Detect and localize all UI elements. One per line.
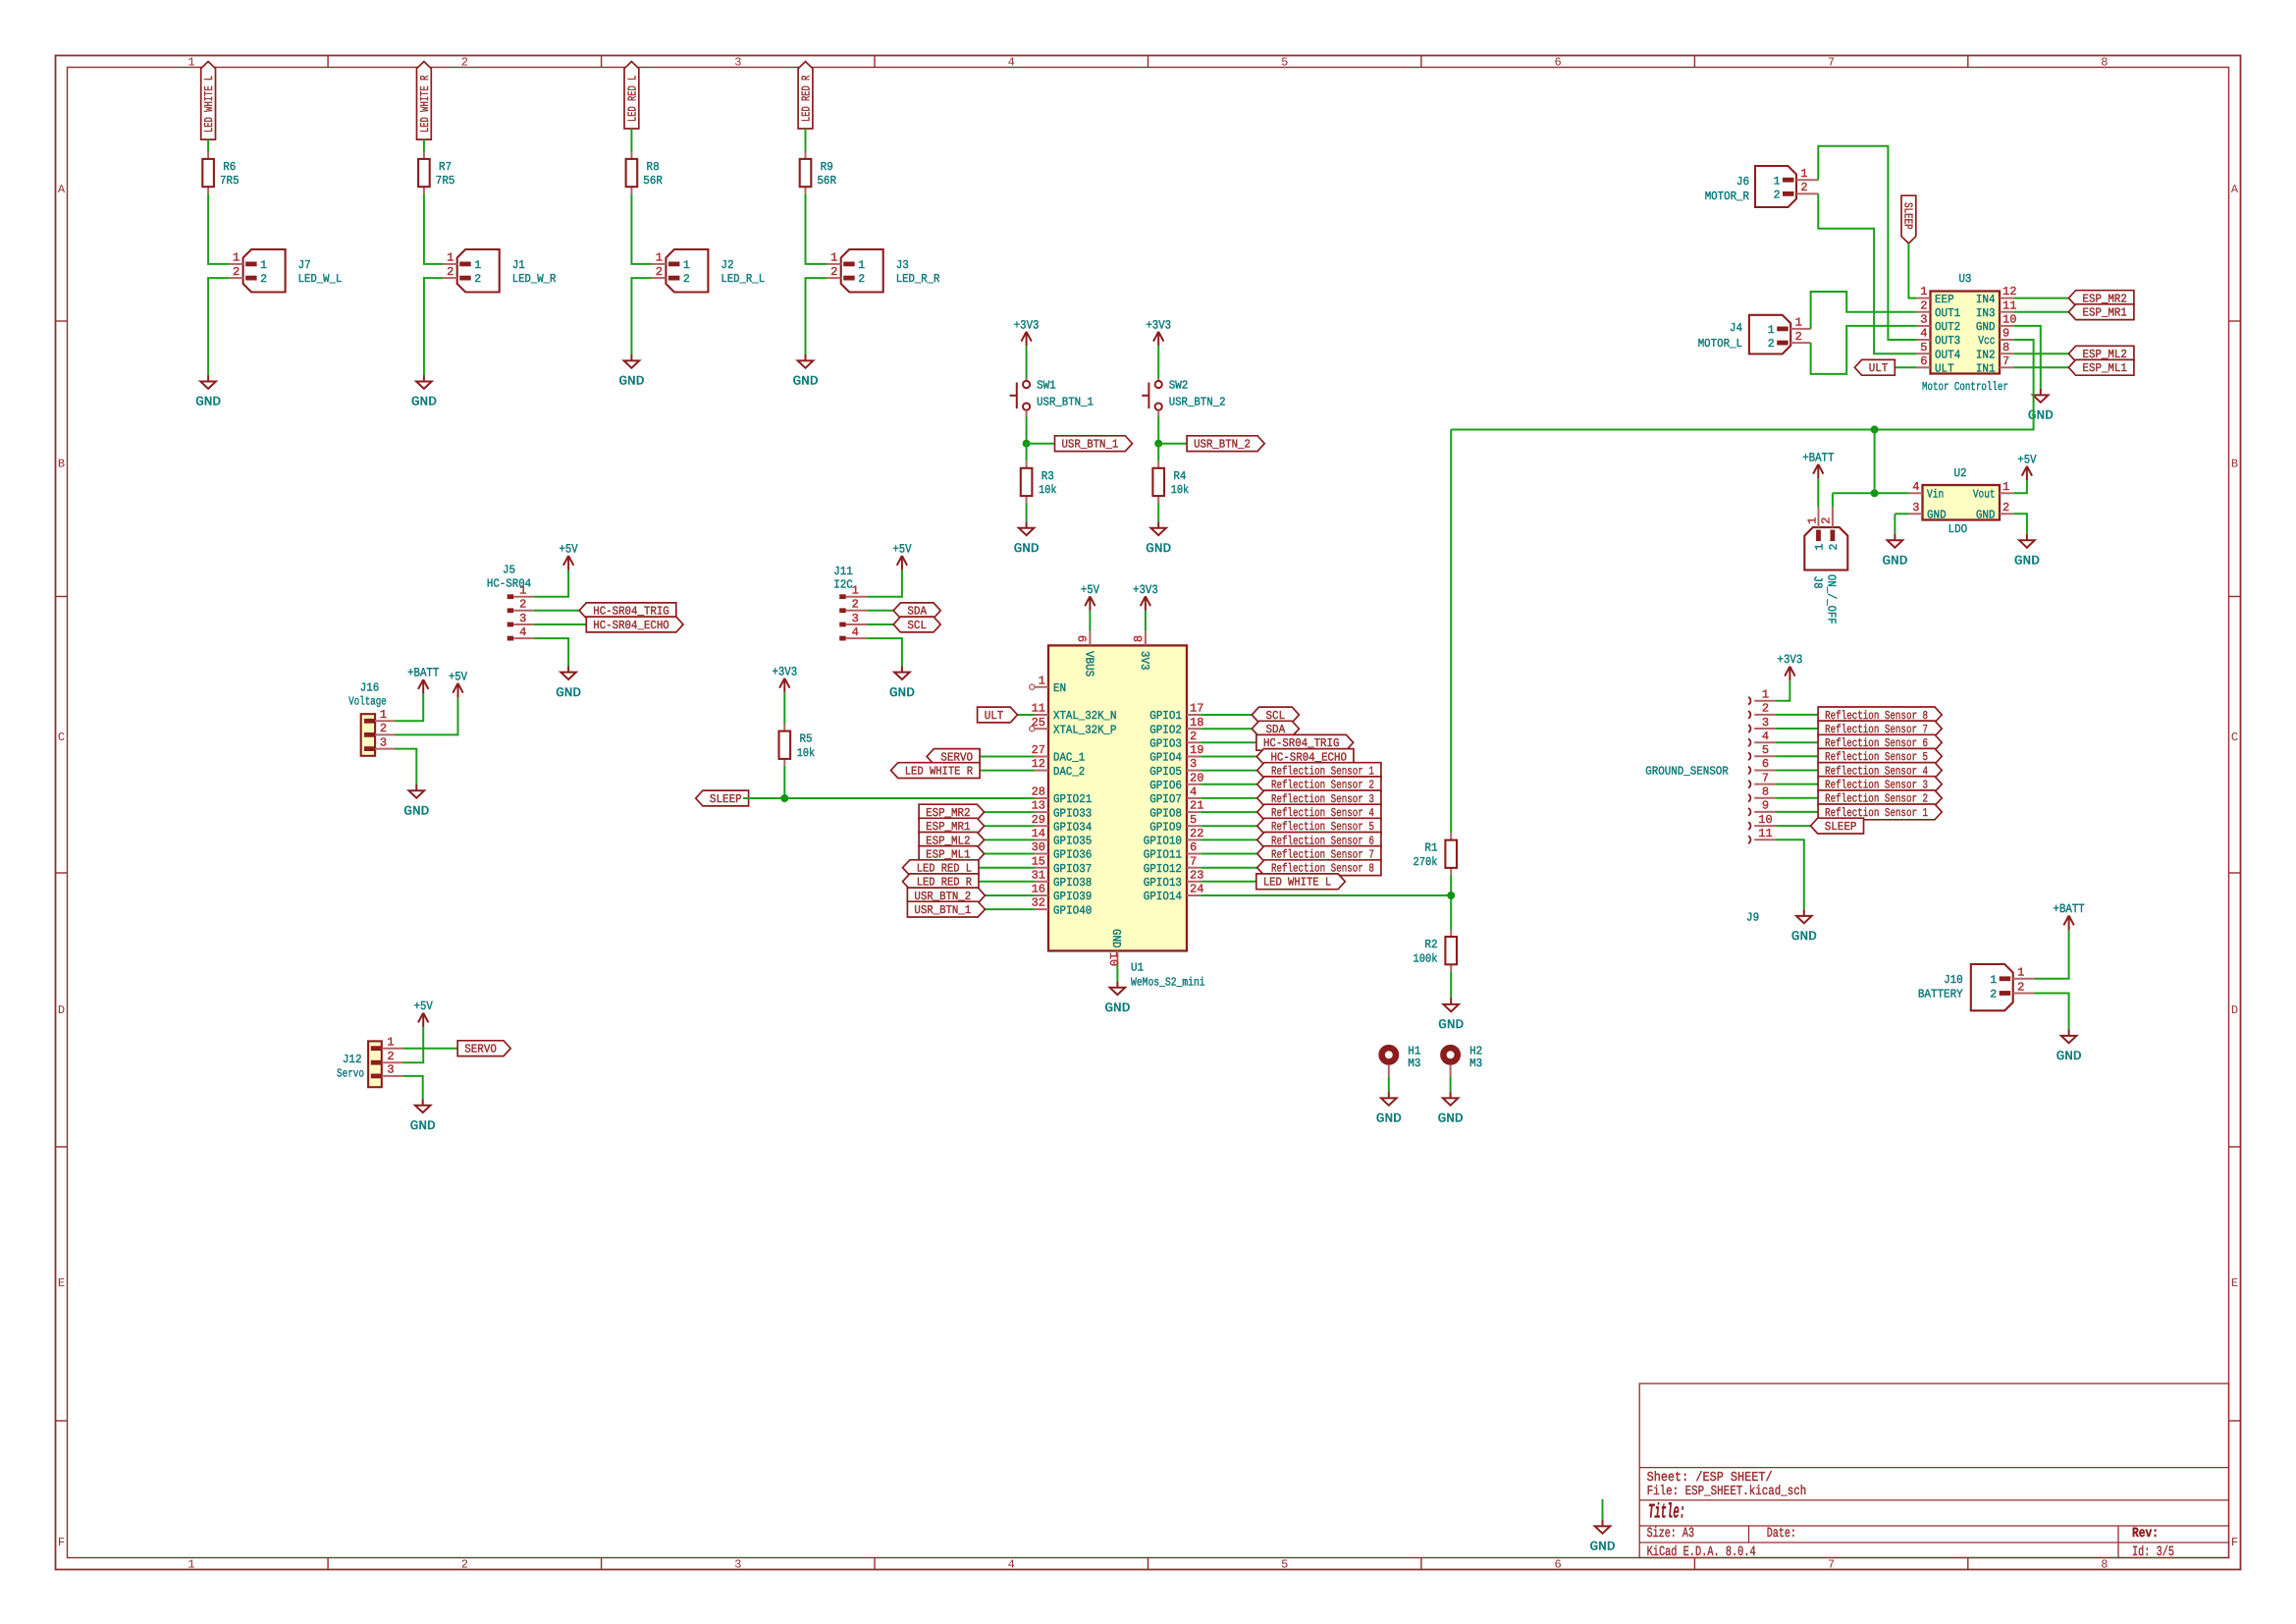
svg-text:GPIO1: GPIO1 xyxy=(1149,709,1182,723)
power +3V3 xyxy=(1785,667,1794,681)
wire ESP_ML1 to U1 xyxy=(978,853,1035,855)
U1 pin 3 GPIO5 xyxy=(1187,770,1201,772)
resistor R8 xyxy=(626,152,638,193)
svg-text:SW2: SW2 xyxy=(1169,379,1189,393)
label Reflection Sensor 6 xyxy=(1818,734,1942,750)
svg-text:GND: GND xyxy=(2056,1049,2082,1063)
connector J16 xyxy=(361,714,396,756)
svg-text:GPIO7: GPIO7 xyxy=(1149,792,1182,806)
label Reflection Sensor 3 xyxy=(1257,790,1381,806)
svg-text:J12: J12 xyxy=(343,1053,362,1066)
wire GPIO1 to SCL xyxy=(1201,714,1252,716)
svg-text:2: 2 xyxy=(656,265,663,279)
ground xyxy=(798,354,814,368)
svg-text:10: 10 xyxy=(1106,952,1120,966)
ground xyxy=(894,666,910,679)
svg-text:OUT4: OUT4 xyxy=(1935,348,1960,361)
label Reflection Sensor 5 xyxy=(1818,748,1942,764)
svg-text:10k: 10k xyxy=(1039,483,1056,497)
label LED RED L xyxy=(903,860,980,876)
svg-text:4: 4 xyxy=(1008,56,1015,70)
wire xyxy=(534,638,568,666)
svg-text:LED RED R: LED RED R xyxy=(799,76,813,122)
svg-text:7: 7 xyxy=(1762,771,1769,785)
label SLEEP xyxy=(1901,195,1916,244)
U1 pin 16 GPIO39 xyxy=(1035,894,1048,896)
svg-text:VBUS: VBUS xyxy=(1083,651,1096,677)
U1 pin 8 3V3 xyxy=(1145,631,1147,645)
svg-text:MOTOR_L: MOTOR_L xyxy=(1698,337,1742,351)
svg-text:GND: GND xyxy=(403,804,429,819)
label LED RED L xyxy=(624,62,639,129)
svg-text:1: 1 xyxy=(2002,480,2009,494)
U2 pin 1 Vout xyxy=(2000,492,2013,494)
svg-text:GPIO37: GPIO37 xyxy=(1053,862,1092,876)
svg-text:GND: GND xyxy=(2014,554,2040,568)
svg-text:12: 12 xyxy=(2002,285,2016,298)
svg-text:GPIO5: GPIO5 xyxy=(1149,765,1182,779)
label ESP_MR2 xyxy=(919,804,985,820)
wire xyxy=(1157,417,1159,444)
svg-text:+5V: +5V xyxy=(414,1000,434,1013)
svg-text:XTAL_32K_N: XTAL_32K_N xyxy=(1053,709,1116,723)
svg-text:2: 2 xyxy=(1795,330,1802,344)
svg-text:3: 3 xyxy=(1762,716,1769,730)
svg-text:3: 3 xyxy=(1912,501,1919,514)
label Reflection Sensor 3 xyxy=(1818,777,1942,792)
svg-text:M3: M3 xyxy=(1469,1056,1482,1070)
U3 pin 1 EEP xyxy=(1916,298,1930,299)
switch SW1 xyxy=(1010,379,1031,417)
svg-text:1: 1 xyxy=(1768,324,1775,337)
power +3V3 xyxy=(1153,332,1163,347)
svg-text:11: 11 xyxy=(1032,702,1045,716)
connector J6 xyxy=(1755,166,1818,207)
wire J8/Vin rail xyxy=(1833,492,1909,494)
label Reflection Sensor 2 xyxy=(1818,790,1942,806)
svg-text:5: 5 xyxy=(1762,743,1769,757)
wire xyxy=(867,623,893,625)
wire xyxy=(1026,503,1028,521)
wire USR_BTN_2 to U1 xyxy=(978,894,1035,896)
svg-text:19: 19 xyxy=(1190,743,1203,757)
ground xyxy=(1443,1092,1459,1106)
resistor R4 xyxy=(1152,461,1164,503)
svg-text:LED RED L: LED RED L xyxy=(625,76,639,122)
U1 pin 20 GPIO6 xyxy=(1187,784,1201,785)
svg-text:3: 3 xyxy=(734,1558,741,1572)
wire J9 pin7 to Reflection Sensor 3 xyxy=(1776,784,1818,785)
svg-text:LED WHITE R: LED WHITE R xyxy=(418,76,432,133)
wire xyxy=(1026,417,1028,444)
label Reflection Sensor 1 xyxy=(1257,763,1381,779)
svg-text:R3: R3 xyxy=(1041,469,1054,483)
label LED WHITE L xyxy=(201,62,216,140)
svg-text:File: ESP_SHEET.kicad_sch: File: ESP_SHEET.kicad_sch xyxy=(1647,1485,1807,1499)
svg-text:OUT2: OUT2 xyxy=(1935,320,1960,334)
wire +5V to J12 pin2 xyxy=(403,1027,424,1062)
svg-text:21: 21 xyxy=(1190,799,1203,813)
svg-text:+3V3: +3V3 xyxy=(1133,583,1158,597)
ground xyxy=(1381,1092,1397,1106)
svg-text:LDO: LDO xyxy=(1949,522,1968,536)
wire GPIO3 to HC-SR04_TRIG xyxy=(1201,741,1256,743)
wire xyxy=(1157,346,1159,378)
wire U3 IN3 to ESP_MR1 xyxy=(2013,311,2068,313)
svg-text:2: 2 xyxy=(683,273,690,286)
svg-text:GND: GND xyxy=(889,685,915,700)
power +3V3 xyxy=(1141,596,1150,611)
wire xyxy=(867,570,902,597)
svg-text:R8: R8 xyxy=(647,160,660,174)
svg-text:GND: GND xyxy=(1109,929,1123,948)
label ESP_MR1 xyxy=(919,818,985,834)
svg-text:7R5: 7R5 xyxy=(436,174,455,188)
svg-text:5: 5 xyxy=(1281,56,1288,70)
U1 pin 23 GPIO13 xyxy=(1187,881,1201,883)
label Reflection Sensor 4 xyxy=(1257,804,1381,820)
svg-text:29: 29 xyxy=(1032,813,1045,827)
U1 pin 15 GPIO37 xyxy=(1035,867,1048,869)
svg-text:270k: 270k xyxy=(1414,855,1438,869)
wire J9 pin2 to Reflection Sensor 8 xyxy=(1776,714,1818,716)
wire GPIO14 to R1/R2 node xyxy=(1201,894,1451,896)
connector J3 xyxy=(828,249,883,293)
svg-text:SCL: SCL xyxy=(907,619,927,632)
power +5V xyxy=(2022,466,2032,481)
svg-text:GPIO12: GPIO12 xyxy=(1144,862,1182,876)
resistor R2 xyxy=(1445,930,1457,971)
connector J4 xyxy=(1749,315,1811,354)
svg-text:USR_BTN_1: USR_BTN_1 xyxy=(914,903,971,917)
U1 pin 7 GPIO12 xyxy=(1187,867,1201,869)
svg-text:2: 2 xyxy=(1820,517,1834,524)
IC U1 WeMos_S2_mini body xyxy=(1048,645,1187,950)
svg-text:IN2: IN2 xyxy=(1976,348,1996,361)
wire xyxy=(1026,346,1028,378)
label Reflection Sensor 4 xyxy=(1818,763,1942,779)
wire R1 to R2 xyxy=(1450,875,1452,930)
svg-text:1: 1 xyxy=(858,259,865,272)
label LED WHITE R xyxy=(417,62,432,140)
svg-text:GPIO14: GPIO14 xyxy=(1144,890,1182,903)
wire GPIO8 to Reflection Sensor 4 xyxy=(1201,811,1257,813)
label ESP_MR1 xyxy=(2068,304,2134,320)
svg-text:HC-SR04: HC-SR04 xyxy=(487,577,531,591)
svg-text:E: E xyxy=(2231,1276,2238,1290)
wire xyxy=(208,193,229,264)
ground xyxy=(416,375,432,389)
U3 pin 8 IN2 xyxy=(2000,352,2013,354)
svg-text:J2: J2 xyxy=(721,258,733,272)
label Reflection Sensor 1 xyxy=(1818,804,1942,820)
wire xyxy=(208,278,229,375)
svg-text:C: C xyxy=(58,731,65,744)
U3 pin 7 IN1 xyxy=(2000,366,2013,368)
svg-text:I2C: I2C xyxy=(833,577,853,591)
svg-text:+5V: +5V xyxy=(2017,453,2037,466)
label USR_BTN_1 xyxy=(1055,436,1133,452)
svg-text:8: 8 xyxy=(2002,341,2009,354)
svg-text:6: 6 xyxy=(1554,1558,1561,1572)
svg-text:+5V: +5V xyxy=(449,670,468,683)
label ULT xyxy=(1854,359,1895,375)
svg-text:U1: U1 xyxy=(1131,960,1144,974)
wire J9 pin8 to Reflection Sensor 2 xyxy=(1776,797,1818,799)
svg-text:25: 25 xyxy=(1032,716,1045,730)
svg-text:+BATT: +BATT xyxy=(407,667,440,680)
wire J9 pin3 to Reflection Sensor 7 xyxy=(1776,728,1818,730)
svg-text:GPIO10: GPIO10 xyxy=(1144,835,1182,848)
wire U3 IN1 to ESP_ML1 xyxy=(2013,366,2068,368)
svg-text:U3: U3 xyxy=(1958,272,1971,286)
svg-text:J9: J9 xyxy=(1746,911,1759,925)
svg-text:2: 2 xyxy=(1990,989,1997,1001)
label USR_BTN_1 xyxy=(907,901,985,917)
svg-text:+BATT: +BATT xyxy=(2054,902,2086,916)
wire 3V3 to +3V3 xyxy=(1145,611,1147,631)
label LED WHITE L xyxy=(1256,874,1346,890)
svg-text:1: 1 xyxy=(1762,688,1769,702)
U3 pin 4 OUT3 xyxy=(1916,339,1930,341)
wire USR_BTN_1 to U1 xyxy=(978,908,1035,910)
ground xyxy=(409,785,425,798)
ground xyxy=(624,354,640,368)
svg-text:7: 7 xyxy=(1190,854,1197,868)
svg-text:+3V3: +3V3 xyxy=(1146,318,1171,332)
svg-text:R4: R4 xyxy=(1173,469,1186,483)
svg-text:GPIO21: GPIO21 xyxy=(1053,792,1092,806)
svg-text:J10: J10 xyxy=(1944,973,1963,987)
svg-text:15: 15 xyxy=(1032,854,1045,868)
wire xyxy=(1158,443,1187,445)
wire LED WHITE R to DAC_2 xyxy=(980,770,1035,772)
label Reflection Sensor 8 xyxy=(1257,860,1381,876)
svg-text:1: 1 xyxy=(387,1036,394,1050)
svg-text:4: 4 xyxy=(852,625,859,639)
svg-text:B: B xyxy=(2231,458,2238,471)
U3 pin 5 OUT4 xyxy=(1916,352,1930,354)
wire xyxy=(631,193,652,264)
svg-text:8: 8 xyxy=(2101,1558,2108,1572)
svg-text:OUT1: OUT1 xyxy=(1935,306,1960,320)
svg-text:Voltage: Voltage xyxy=(348,695,387,709)
svg-text:J7: J7 xyxy=(298,258,311,272)
label Reflection Sensor 6 xyxy=(1257,833,1381,848)
wire xyxy=(1157,503,1159,521)
svg-text:GND: GND xyxy=(1791,929,1817,944)
svg-text:GPIO33: GPIO33 xyxy=(1053,806,1092,820)
wire xyxy=(867,638,902,666)
svg-text:LED WHITE L: LED WHITE L xyxy=(202,76,216,133)
svg-text:3: 3 xyxy=(1920,313,1927,327)
U1 pin 19 GPIO4 xyxy=(1187,756,1201,758)
connector J12 xyxy=(368,1041,403,1087)
ground xyxy=(415,1099,431,1112)
power +5V xyxy=(1085,596,1095,611)
svg-text:GPIO13: GPIO13 xyxy=(1144,876,1182,890)
svg-text:SERVO: SERVO xyxy=(464,1043,497,1056)
U3 pin 10 GND xyxy=(2000,325,2013,327)
svg-text:EN: EN xyxy=(1053,681,1066,695)
svg-text:+5V: +5V xyxy=(1081,583,1100,597)
wire xyxy=(396,749,417,785)
U1 pin 5 GPIO9 xyxy=(1187,825,1201,827)
svg-text:J1: J1 xyxy=(512,258,525,272)
svg-text:USR_BTN_1: USR_BTN_1 xyxy=(1062,438,1119,452)
svg-text:1: 1 xyxy=(380,708,387,722)
label SDA xyxy=(893,603,940,619)
svg-text:13: 13 xyxy=(1032,799,1045,813)
wire ESP_MR1 to U1 xyxy=(978,825,1035,827)
U1 pin 32 GPIO40 xyxy=(1035,908,1048,910)
svg-text:2: 2 xyxy=(474,273,481,286)
wire +BATT rail horizontal xyxy=(1451,429,1874,431)
wire xyxy=(806,278,828,354)
power +BATT xyxy=(2063,916,2073,931)
svg-text:32: 32 xyxy=(1032,896,1045,910)
ground xyxy=(1443,999,1459,1012)
svg-text:ULT: ULT xyxy=(985,709,1004,723)
ground xyxy=(561,666,576,679)
wire xyxy=(805,129,807,152)
U1 pin 9 VBUS xyxy=(1089,631,1091,645)
junction xyxy=(1871,426,1879,434)
wire xyxy=(396,697,458,734)
svg-text:100k: 100k xyxy=(1414,951,1438,965)
svg-text:SLEEP: SLEEP xyxy=(710,792,742,806)
wire xyxy=(207,139,209,152)
svg-text:GPIO35: GPIO35 xyxy=(1053,835,1092,848)
svg-text:J4: J4 xyxy=(1730,321,1742,335)
wire xyxy=(424,193,444,264)
svg-text:J5: J5 xyxy=(503,563,515,576)
svg-text:1: 1 xyxy=(447,251,454,265)
U1 pin 14 GPIO35 xyxy=(1035,839,1048,840)
power +BATT xyxy=(1813,464,1823,479)
U1 pin 4 GPIO7 xyxy=(1187,797,1201,799)
label HC-SR04_ECHO xyxy=(1256,749,1354,765)
svg-text:2: 2 xyxy=(830,265,837,279)
label LED WHITE R xyxy=(891,763,981,779)
svg-text:SLEEP: SLEEP xyxy=(1901,202,1915,230)
svg-text:3: 3 xyxy=(387,1063,394,1077)
svg-text:LED_R_R: LED_R_R xyxy=(896,272,940,286)
svg-text:USR_BTN_2: USR_BTN_2 xyxy=(1169,396,1226,409)
wire J9 pin10 to SLEEP xyxy=(1776,825,1818,827)
power +5V xyxy=(418,1013,428,1028)
svg-text:2: 2 xyxy=(461,1558,468,1572)
svg-text:J11: J11 xyxy=(833,565,853,578)
wire xyxy=(630,129,632,152)
label LED RED R xyxy=(903,874,980,890)
svg-text:2: 2 xyxy=(1800,181,1807,194)
wire GPIO7 to Reflection Sensor 3 xyxy=(1201,797,1257,799)
wire xyxy=(1027,443,1055,445)
svg-text:56R: 56R xyxy=(817,174,836,188)
wire J9 pin6 to Reflection Sensor 4 xyxy=(1776,770,1818,772)
wire U2 GND left down xyxy=(1894,514,1896,534)
wire U3 GND pin down xyxy=(2013,326,2041,389)
wire xyxy=(631,278,652,354)
svg-text:12: 12 xyxy=(1032,757,1045,771)
svg-text:GND: GND xyxy=(1438,1017,1464,1032)
wire xyxy=(396,694,424,722)
svg-text:GPIO36: GPIO36 xyxy=(1053,848,1092,862)
wire GPIO12 to Reflection Sensor 8 xyxy=(1201,867,1257,869)
label HC-SR04_TRIG xyxy=(1256,734,1354,750)
label Reflection Sensor 7 xyxy=(1818,721,1942,736)
svg-text:ON_/_OFF: ON_/_OFF xyxy=(1825,574,1839,624)
resistor R9 xyxy=(800,152,812,193)
svg-text:28: 28 xyxy=(1032,785,1045,799)
svg-text:20: 20 xyxy=(1190,771,1203,785)
svg-text:Motor Controller: Motor Controller xyxy=(1922,380,2008,394)
U1 pin 17 GPIO1 xyxy=(1187,714,1201,716)
svg-text:GROUND_SENSOR: GROUND_SENSOR xyxy=(1645,764,1729,778)
label HC-SR04_ECHO xyxy=(586,617,683,632)
svg-text:BATTERY: BATTERY xyxy=(1918,988,1963,1001)
svg-text:1: 1 xyxy=(1814,543,1827,550)
svg-text:3: 3 xyxy=(1190,757,1197,771)
svg-text:LED WHITE R: LED WHITE R xyxy=(905,765,973,779)
U1 pin 25 XTAL_32K_P xyxy=(1030,727,1048,731)
svg-text:3: 3 xyxy=(734,56,741,70)
mounting hole H2 xyxy=(1443,1048,1457,1061)
svg-text:GND: GND xyxy=(1976,509,1996,522)
svg-text:2: 2 xyxy=(1774,189,1781,202)
svg-text:F: F xyxy=(2231,1536,2238,1549)
label USR_BTN_2 xyxy=(907,888,985,903)
svg-text:GPIO34: GPIO34 xyxy=(1053,820,1092,834)
wire H2 to GND xyxy=(1450,1065,1452,1077)
svg-text:SW1: SW1 xyxy=(1037,379,1056,393)
svg-text:5: 5 xyxy=(1190,813,1197,827)
svg-text:2: 2 xyxy=(380,722,387,735)
svg-text:4: 4 xyxy=(1190,785,1197,799)
svg-text:9: 9 xyxy=(1077,635,1091,642)
svg-text:GPIO9: GPIO9 xyxy=(1149,820,1182,834)
svg-text:6: 6 xyxy=(1190,840,1197,854)
svg-text:ESP_MR1: ESP_MR1 xyxy=(2083,306,2127,320)
svg-text:5: 5 xyxy=(1920,341,1927,354)
svg-text:IN4: IN4 xyxy=(1976,293,1996,306)
svg-text:GND: GND xyxy=(1590,1540,1616,1554)
svg-text:E: E xyxy=(58,1276,65,1290)
svg-text:11: 11 xyxy=(1758,827,1772,840)
wire xyxy=(534,610,583,612)
connector J9 xyxy=(1748,697,1776,843)
svg-text:9: 9 xyxy=(1762,799,1769,813)
svg-text:XTAL_32K_P: XTAL_32K_P xyxy=(1053,723,1116,736)
svg-text:3V3: 3V3 xyxy=(1138,651,1151,671)
svg-text:F: F xyxy=(58,1536,65,1549)
label ESP_MR2 xyxy=(2068,291,2134,306)
label SERVO xyxy=(927,749,980,765)
wire GPIO6 to Reflection Sensor 2 xyxy=(1201,784,1257,785)
svg-text:GND: GND xyxy=(2028,408,2054,423)
svg-text:R1: R1 xyxy=(1424,841,1437,855)
U1 pin 28 GPIO21 xyxy=(1035,797,1048,799)
svg-text:GND: GND xyxy=(1438,1111,1464,1126)
resistor R1 xyxy=(1445,834,1457,875)
wire xyxy=(783,766,785,798)
svg-text:7: 7 xyxy=(1828,56,1835,70)
wire ESP_ML2 to U1 xyxy=(978,839,1035,840)
svg-text:2: 2 xyxy=(858,273,865,286)
wire U3 IN4 to ESP_MR2 xyxy=(2013,298,2068,299)
svg-text:8: 8 xyxy=(1132,635,1146,642)
